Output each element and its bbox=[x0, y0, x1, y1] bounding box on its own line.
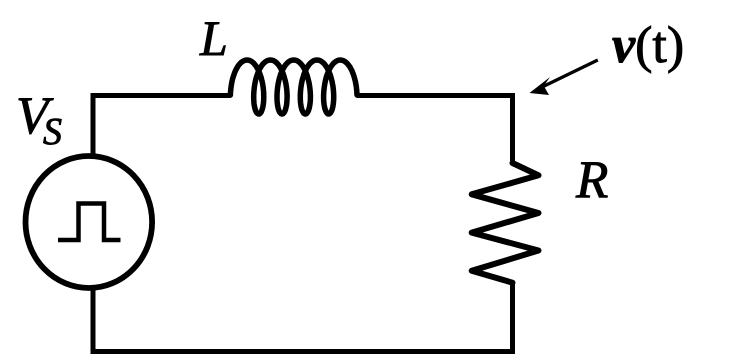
wire bottom horizontal bbox=[91, 349, 516, 354]
svg-text:v(t): v(t) bbox=[612, 17, 684, 74]
resistor R zigzag bbox=[472, 163, 539, 283]
svg-text:S: S bbox=[43, 111, 62, 153]
wire left vertical upper bbox=[91, 93, 96, 156]
wire top-left horizontal bbox=[91, 93, 232, 98]
arrow line to node v(t) bbox=[538, 60, 598, 89]
wire right vertical upper bbox=[510, 93, 515, 164]
inductor L coil bbox=[230, 60, 357, 114]
svg-text:L: L bbox=[199, 10, 228, 66]
svg-text:R: R bbox=[575, 151, 608, 209]
wire left vertical lower bbox=[91, 288, 96, 352]
arrowhead bbox=[530, 77, 551, 95]
voltage source VS circle bbox=[26, 156, 153, 288]
wire right vertical lower bbox=[510, 282, 515, 354]
pulse waveform symbol bbox=[58, 204, 121, 241]
wire top-right horizontal bbox=[357, 93, 516, 98]
